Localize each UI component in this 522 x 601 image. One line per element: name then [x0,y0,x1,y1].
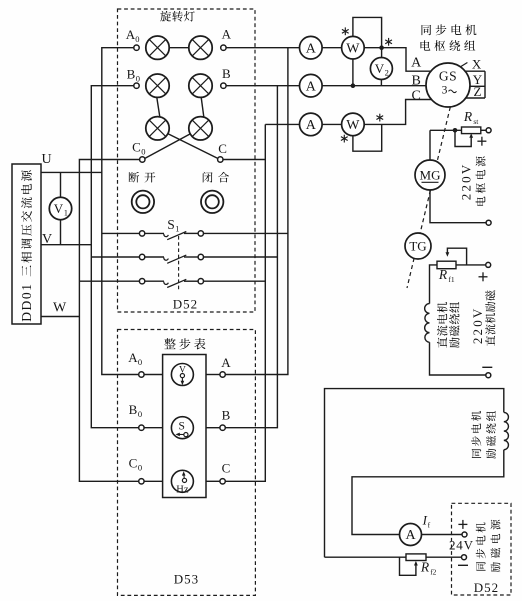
svg-text:W: W [346,118,360,133]
lamp L2 phase A [189,36,212,59]
svg-text:R: R [463,109,473,124]
label 同步电机 (sync field line1) [471,411,481,458]
wire W1 bottom to row B [352,59,354,86]
asterisk W1 current coil [344,27,346,35]
asterisk W2 current coil [343,135,345,143]
node A lamp terminal [221,45,226,50]
node C0 lamp terminal [140,157,145,162]
junction node row A / V2 tap [379,45,384,50]
svg-text:TG: TG [409,239,426,254]
wire phase-B left bus [91,86,138,428]
wire synchronous field loop top [325,389,504,558]
svg-text:GS: GS [439,69,457,84]
label 220V (armature supply) [458,163,473,201]
wire GS X lead [461,63,468,67]
svg-text:A: A [405,528,416,543]
voltmeter V1 [49,197,71,219]
switch S1 pole 3 [139,279,144,284]
svg-text:C: C [129,455,138,470]
wire right bus phase C [225,124,265,481]
wire GS star point X-Y-Z [465,70,485,72]
label 电枢绕组 (armature winding header line2) [420,40,430,50]
wire W2 to GS phase C [364,100,431,125]
svg-text:X: X [472,56,482,71]
synchroscope meter box [163,355,206,498]
wire row A lamps to ammeter A1 [226,47,299,49]
switch S1 pole 2 [139,254,144,259]
wire lamp L5 to node C (crossover) [168,134,218,159]
label 直流机励磁 [485,290,495,345]
synchroscope Hz dial [171,470,193,492]
svg-text:0: 0 [135,34,139,44]
wire lamp L6 to node C0 (crossover) [145,134,190,159]
svg-text:0: 0 [141,147,145,157]
node C synchroscope right terminal [220,479,225,484]
label 励磁绕组 (field winding line2) [449,302,459,348]
svg-text:A: A [128,350,138,365]
svg-text:0: 0 [138,357,142,367]
asterisk W2 voltage coil [379,114,381,122]
svg-text:B: B [129,402,138,417]
node A synchroscope right terminal [220,372,225,377]
svg-text:S: S [167,217,175,232]
svg-text:D52: D52 [173,296,198,311]
terminal +220V armature supply [486,128,491,133]
label 电枢电源 [476,156,486,205]
wire field coil to -220V field terminal [430,342,486,375]
svg-text:A: A [411,56,422,71]
svg-text:B: B [222,66,231,81]
svg-text:f2: f2 [430,567,436,576]
wire GS field supply to Rst [430,129,462,131]
asterisk W1 voltage coil [388,38,390,46]
svg-text:3: 3 [442,85,448,97]
switch S1 linkage dashed [178,236,180,291]
svg-text:0: 0 [138,409,142,419]
panel box D53 (synchroscope) [118,330,256,596]
wire row C bus to ammeter A3 [265,123,299,125]
wire V2 to row B [380,80,382,86]
svg-text:W: W [346,41,360,56]
svg-text:S: S [178,420,184,432]
lamp L5 [146,117,169,140]
wire S1 row2 feeder [91,256,139,258]
label 直流电机 (field winding line1) [437,302,448,348]
node A0 synchroscope left terminal [139,372,144,377]
label 断开 [129,172,140,183]
label 励磁绕组 (sync field line2) [486,411,496,459]
label 整步表 [164,338,175,349]
wire loop bottom to Rf2 [325,556,407,558]
terminal +24V [462,532,467,537]
wire field coil to ammeter branch [352,450,504,535]
wire V from supply [41,244,91,246]
label 同步电机 (supply line1) [476,522,486,570]
terminal -220V DC field supply [486,373,491,378]
svg-text:A: A [126,27,136,42]
svg-text:C: C [412,88,421,103]
motor MG [415,160,445,190]
pushbutton close [201,191,223,213]
wire right bus phase A [225,48,288,375]
wire Rf1 slider tap [447,248,466,265]
svg-text:D53: D53 [174,572,199,587]
svg-text:2: 2 [385,68,389,78]
svg-text:W: W [53,300,67,315]
node C0 synchroscope left terminal [139,479,144,484]
node B0 lamp terminal [134,83,139,88]
voltmeter V1 drop wire [60,172,62,197]
terminal -220V armature supply [486,220,491,225]
svg-text:U: U [41,152,51,167]
svg-text:220V: 220V [458,163,473,201]
wire A1 to W1 [322,47,342,49]
wire Rf1 to field coil [430,265,438,304]
node B synchroscope right terminal [220,425,225,430]
lamp L4 phase B [189,74,212,97]
wire S1 row1 feeder [102,232,140,234]
label 同步电机 (armature winding header line1) [422,25,432,35]
wire node C to bus C [223,159,265,161]
wire Rf1 to +220V field terminal [456,264,486,266]
wire MG to -220V terminal [430,190,486,223]
pushbutton open [132,191,154,213]
switch S1 pole 1 [139,231,144,236]
wire W1 to GS phase A [364,48,431,71]
svg-text:24V: 24V [449,537,474,552]
wire lamp L4 to L6 [201,97,204,116]
node C lamp terminal [218,157,223,162]
panel box D52 (rotating lamps) [118,9,256,312]
svg-text:Hz: Hz [176,485,189,496]
node B lamp terminal [221,83,226,88]
junction node Rst input [453,128,458,133]
svg-text:D52: D52 [474,580,499,595]
svg-text:f1: f1 [448,275,454,284]
resistor Rst [462,127,481,134]
wire S1 row3 to bus C [204,280,266,282]
synchroscope voltmeter dial [171,364,193,386]
svg-text:A: A [222,26,232,41]
ammeter A3 [300,113,323,136]
panel box D52 (24V excitation supply) [452,503,512,595]
wire lamp L3 to L5 [157,97,160,116]
svg-text:DD01: DD01 [19,282,34,321]
label + (armature supply) [477,140,486,142]
svg-text:A: A [306,41,317,56]
wire phase-C left bus [79,160,139,482]
node A0 lamp terminal [134,45,139,50]
wattmeter W2 [342,113,365,136]
svg-text:0: 0 [136,74,140,84]
svg-text:A: A [221,355,231,370]
svg-text:V: V [375,61,385,76]
svg-text:C: C [222,460,231,475]
svg-text:C: C [218,141,227,156]
svg-text:1: 1 [175,224,179,234]
svg-text:C: C [132,140,141,155]
synchroscope S dial [171,417,193,439]
wire phase-A left bus [102,48,139,375]
shaft coupling dashed line [437,107,450,163]
wire W from supply [41,316,79,318]
svg-text:0: 0 [138,462,142,472]
tachogenerator TG [405,233,431,259]
wire Rst to +220V terminal [481,129,486,131]
terminal +220V DC field supply [486,262,491,267]
generator GS [426,63,470,107]
junction node row B / W1 voltage return [351,83,356,88]
svg-text:A: A [306,79,317,94]
wire Rst slider tap [455,130,471,146]
wire S1 row1 to bus A [204,232,288,234]
svg-text:A: A [306,118,317,133]
svg-text:220V: 220V [470,306,485,344]
lamp L6 [189,117,212,140]
voltmeter V2 [370,58,392,80]
svg-text:1: 1 [64,208,68,218]
wire W2 voltage coil loop [353,124,382,151]
svg-text:B: B [127,67,136,82]
wire Rf2 to -24V terminal [426,556,461,558]
power supply DD01 three-phase box [12,164,41,324]
label + (24V) [458,523,467,525]
resistor Rf2 [406,554,426,561]
svg-text:MG: MG [420,168,441,183]
label 励磁电源 (supply line2) [491,520,501,572]
node B0 synchroscope left terminal [139,425,144,430]
label - (24V) [458,564,468,566]
label 闭合 [203,172,213,183]
ammeter A2 [300,74,323,97]
wire ammeter to +24V terminal [422,534,463,536]
wire between lamps row A [169,47,189,49]
label DD01三相调压交流电源 [19,170,34,322]
wire S1 row2 to bus B [204,256,278,258]
wire W1 voltage coil loop [353,17,382,57]
wire U from supply [41,171,102,173]
resistor Rf1 [437,261,456,269]
inductor synchronous machine field winding [504,412,509,449]
inductor DC machine field winding [425,304,430,343]
svg-text:V: V [54,201,64,216]
label 220V (DC excitation) [470,306,485,344]
label 旋转灯 [160,11,171,22]
wire S1 row3 feeder [79,280,139,282]
wattmeter W1 [342,36,365,59]
ammeter A1 [300,36,323,59]
lamp L3 phase B [146,74,169,97]
lamp L1 phase A [146,36,169,59]
svg-text:B: B [222,408,231,423]
label - (DC field supply) [482,366,492,368]
wire Rf2 slider tap [400,557,416,575]
label + (DC field supply) [479,276,488,278]
wire right bus phase B [225,86,277,428]
ammeter If [400,524,422,546]
wire A3 to W2 [322,123,342,125]
wire Rst to motor MG [429,130,431,160]
svg-text:B: B [412,73,421,88]
wire A2 to GS phase B [322,85,426,87]
svg-text:R: R [420,560,430,575]
terminal -24V [462,555,467,560]
wire row B lamps to ammeter A2 [226,85,299,87]
